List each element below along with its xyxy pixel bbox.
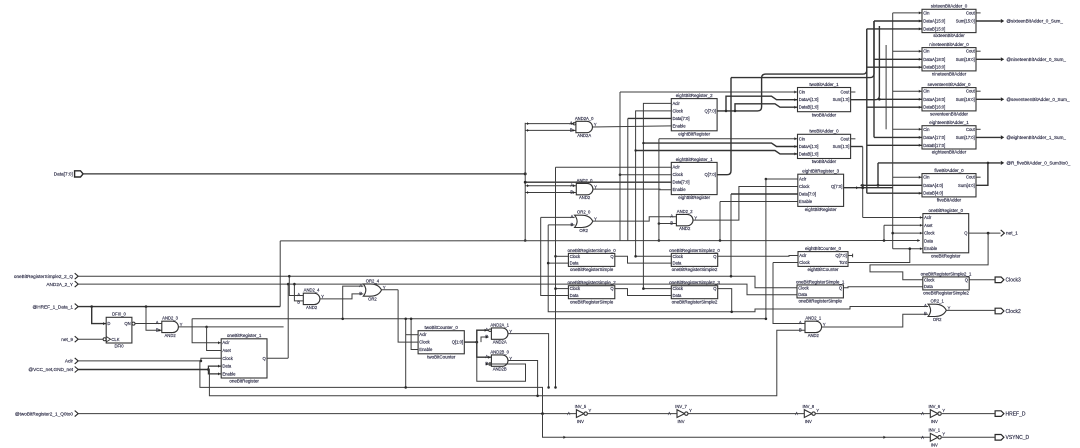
wire AND2A_0 Y to Enable <box>593 126 672 127</box>
oneBitRegisterSimple_0 <box>567 248 616 272</box>
wire eightBitRegister_2 Data feed <box>628 117 672 119</box>
wire sum fiveBitAdder_0 output <box>976 163 1001 185</box>
svg-text:eightBitRegister: eightBitRegister <box>805 207 837 212</box>
wire Aclr input line <box>78 358 221 361</box>
svg-text:AND2A: AND2A <box>493 340 507 345</box>
twoBitAdder_0 Cout stub <box>851 138 856 140</box>
wire vertical 773 to AND2_1 A <box>773 263 805 324</box>
wire INV_7 to INV_8 <box>688 413 804 415</box>
wire Q out to AND gates <box>464 341 477 343</box>
wire DataB feed <box>867 28 922 30</box>
output HREF_D <box>995 411 1026 418</box>
input port @twoBitRegister2_1_Q0to0 <box>15 411 78 417</box>
svg-text:net_9: net_9 <box>61 337 73 342</box>
svg-text:INV_8: INV_8 <box>802 404 814 409</box>
wire eighteenBitAdder_1 DataA feed <box>885 45 887 129</box>
svg-text:DataA[4:0]: DataA[4:0] <box>923 183 943 188</box>
svg-text:Y: Y <box>816 408 819 413</box>
wire trunk V1 <box>524 123 526 241</box>
svg-text:AND2: AND2 <box>808 333 820 338</box>
sixteenBitAdder_0 <box>922 4 976 39</box>
svg-text:Y: Y <box>823 322 826 327</box>
wire S0 clock feed <box>556 255 569 257</box>
svg-text:OR2: OR2 <box>933 317 942 322</box>
wire Data[7:0] bus <box>83 173 525 175</box>
svg-text:Y: Y <box>588 408 591 413</box>
wire AND2A_2_Y line <box>78 284 797 295</box>
wire AND2_4 Y to OR2_4 B <box>320 294 363 299</box>
svg-text:nineteenBitAdder_0: nineteenBitAdder_0 <box>929 42 969 47</box>
wire AND2_3 Y right <box>207 326 284 328</box>
svg-text:@eighteenBitAdder_1_Sum_: @eighteenBitAdder_1_Sum_ <box>1006 135 1066 140</box>
svg-text:AND2_1: AND2_1 <box>805 316 821 321</box>
input port @HREF_1_Data_1 <box>33 304 79 310</box>
svg-text:DataB[15:0]: DataB[15:0] <box>923 26 945 31</box>
eightBitRegister_3 <box>798 169 844 212</box>
svg-text:Data[7:0]: Data[7:0] <box>54 172 73 177</box>
svg-text:Cin: Cin <box>923 175 930 180</box>
svg-text:AND2: AND2 <box>165 333 177 338</box>
svg-text:INV: INV <box>931 419 938 424</box>
svg-text:Sum[17:0]: Sum[17:0] <box>956 135 975 140</box>
wire twoBitAdder_1 DataA feed <box>726 96 798 111</box>
svg-text:Aclr: Aclr <box>924 215 932 220</box>
wire S2 Q to S23 Data <box>615 289 672 296</box>
wire eightBitRegister_3 Enable feed <box>720 201 798 203</box>
wire eightBitCounter Clock feed <box>773 262 798 264</box>
wire to AND2B_0 A <box>477 342 492 357</box>
wire oneBitRegister_0 Q to net_1 <box>969 232 1001 234</box>
wire DataB feed <box>867 192 922 194</box>
svg-text:twoBitAdder_0: twoBitAdder_0 <box>809 129 839 134</box>
eightBitCounter_0 <box>798 246 848 272</box>
svg-text:Cin: Cin <box>923 10 930 15</box>
wire sum sixteenBitAdder_0 output <box>976 20 1001 22</box>
svg-text:fiveBitAdder: fiveBitAdder <box>937 198 962 203</box>
svg-text:@HREF_1_Data_1: @HREF_1_Data_1 <box>33 304 74 309</box>
wire fiveBitAdder_0 DataA feed <box>863 184 922 186</box>
svg-text:VSYNC_D: VSYNC_D <box>1006 435 1030 441</box>
svg-text:Q[7:0]: Q[7:0] <box>835 253 846 258</box>
wire QN to AND2_3 A <box>135 323 162 325</box>
svg-text:INV_1: INV_1 <box>928 428 940 433</box>
svg-text:Sum[1:0]: Sum[1:0] <box>833 97 850 102</box>
svg-text:eightBitRegister_1: eightBitRegister_1 <box>676 157 713 162</box>
wire AND2_4 B feed <box>294 284 303 301</box>
wire eightBitRegister_2 Clock feed <box>636 111 672 256</box>
svg-text:AND2B: AND2B <box>493 367 507 372</box>
wire to AND2B_0 B loop <box>477 342 526 381</box>
oneBitRegister_1 <box>221 333 267 383</box>
svg-text:Enable: Enable <box>799 199 813 204</box>
svg-text:A: A <box>570 214 573 219</box>
svg-text:eightBitRegister: eightBitRegister <box>678 195 710 200</box>
INV_1 gate <box>921 428 945 448</box>
svg-text:Cout: Cout <box>841 136 851 141</box>
svg-text:Y: Y <box>509 329 512 334</box>
wire fiveBitAdder_0 out trunk <box>878 162 988 164</box>
oneBitRegisterSimple_2 <box>567 280 616 304</box>
svg-text:AND2A_2_Y: AND2A_2_Y <box>46 282 73 287</box>
svg-text:oneBitRegister: oneBitRegister <box>931 253 961 258</box>
wire INV_6 to HREF_D <box>942 413 995 415</box>
svg-text:A: A <box>670 213 673 218</box>
wire sum seventeenBitAdder_0 output <box>976 98 1001 100</box>
wire twoBitAdder_1 Sum riser <box>851 26 880 100</box>
svg-text:D: D <box>107 321 110 326</box>
svg-text:sixteenBitAdder_0: sixteenBitAdder_0 <box>931 4 968 9</box>
svg-text:Clock: Clock <box>570 286 581 291</box>
svg-text:oneBitRegisterSimple_1: oneBitRegisterSimple_1 <box>796 279 845 284</box>
svg-text:oneBitRegister: oneBitRegister <box>229 379 259 384</box>
fiveBitAdder_0 <box>922 168 976 203</box>
wire twoBitCounter Clock feed <box>398 290 418 342</box>
wire eightBitRegister_3 Q out <box>844 187 893 189</box>
input port oneBitRegisterSimple2_2_Q <box>14 273 78 279</box>
svg-text:Aset: Aset <box>222 348 231 353</box>
svg-text:DataB[18:0]: DataB[18:0] <box>923 65 945 70</box>
wire Cin feed <box>893 176 922 178</box>
wire twoBitCounter Enable feed <box>411 319 418 350</box>
svg-text:INV: INV <box>678 419 685 424</box>
svg-text:Aclr: Aclr <box>673 101 681 106</box>
svg-text:@R_fiveBitAdder_0_Sum3to0_: @R_fiveBitAdder_0_Sum3to0_ <box>1006 161 1070 166</box>
svg-text:AND2_3: AND2_3 <box>162 316 178 321</box>
eightBitRegister_2 <box>671 93 717 136</box>
svg-text:Clock: Clock <box>673 286 684 291</box>
svg-text:twoBitAdder_1: twoBitAdder_1 <box>809 82 839 87</box>
svg-text:Clock: Clock <box>673 254 684 259</box>
eightBitCounter_0 Q stub <box>848 255 853 257</box>
oneBitRegisterSimple2_0 <box>669 248 720 272</box>
svg-text:OR2: OR2 <box>368 297 377 302</box>
svg-text:Q[1:0]: Q[1:0] <box>452 340 463 345</box>
wire trunk Cin vertical <box>892 13 894 249</box>
svg-text:eightBitCounter: eightBitCounter <box>807 267 839 272</box>
svg-text:AND2: AND2 <box>306 305 318 310</box>
svg-text:AND2A: AND2A <box>577 133 591 138</box>
svg-text:AND2_4: AND2_4 <box>304 288 320 293</box>
wire oneBitRegister_0 Aset feed <box>884 224 923 226</box>
svg-text:AND2B_0: AND2B_0 <box>490 349 509 354</box>
wire V3 vertical <box>548 225 928 312</box>
wire eightBitRegister_1 Clock feed <box>620 174 671 176</box>
wire oneBitRegisterSimple2_2_Q line <box>78 276 797 288</box>
svg-text:Y: Y <box>948 306 951 311</box>
wire twoBitAdder_0 DataA feed <box>643 143 797 146</box>
svg-text:Enable: Enable <box>924 246 938 251</box>
wire oneBitRegister_1 Aclr feed <box>192 319 221 343</box>
AND2_2 gate <box>670 209 697 231</box>
wire INV_1 to VSYNC_D <box>942 436 995 438</box>
svg-text:Clock: Clock <box>570 254 581 259</box>
wire bundle second <box>731 21 874 78</box>
svg-text:Cout: Cout <box>966 49 976 54</box>
svg-text:Data: Data <box>673 293 683 298</box>
svg-text:Clock: Clock <box>924 231 935 236</box>
output @R_fiveBitAdder_0_Sum3to0_ <box>1001 161 1071 166</box>
svg-text:Aclr: Aclr <box>799 253 807 258</box>
svg-text:A: A <box>799 320 802 325</box>
svg-text:Cin: Cin <box>799 90 806 95</box>
svg-text:HREF_D: HREF_D <box>1006 411 1026 417</box>
AND2_3 gate <box>156 316 183 338</box>
svg-text:@VCC_net,GND_net: @VCC_net,GND_net <box>28 367 73 372</box>
wire AND2B_0 Y out <box>508 361 538 396</box>
svg-text:CLK: CLK <box>111 337 119 342</box>
svg-text:Cin: Cin <box>923 49 930 54</box>
OR2_1 gate <box>924 299 951 322</box>
svg-text:Enable: Enable <box>673 187 687 192</box>
wire AND2_2 B feed <box>659 223 677 225</box>
wire fiveBitAdder_0 feedback leg <box>877 163 879 185</box>
output Clock2 <box>995 308 1021 315</box>
svg-text:Data: Data <box>570 293 580 298</box>
svg-text:oneBitRegisterSimple: oneBitRegisterSimple <box>570 299 614 304</box>
svg-text:AND2_2: AND2_2 <box>677 209 693 214</box>
svg-text:oneBitRegisterSimple: oneBitRegisterSimple <box>799 299 843 304</box>
wire AND2_3 Y out <box>178 326 206 328</box>
svg-text:twoBitAdder: twoBitAdder <box>812 159 837 164</box>
wire INV_8 to INV_6 <box>816 413 931 415</box>
wire DataB feed <box>867 66 922 68</box>
svg-text:DataA[15:0]: DataA[15:0] <box>923 19 945 24</box>
svg-text:Data: Data <box>570 261 580 266</box>
wire trunk y240 <box>280 240 920 242</box>
wire OR2_1 Y to Clock2 <box>946 309 995 311</box>
wire @twoBitRegister2_1_Q0to0 line <box>78 413 576 415</box>
svg-text:nineteenBitAdder: nineteenBitAdder <box>932 72 967 77</box>
svg-text:Cin: Cin <box>799 136 806 141</box>
svg-text:AND2A_0: AND2A_0 <box>575 116 594 121</box>
input port Aclr <box>65 358 78 364</box>
input port @VCC_net,GND_net <box>28 367 78 373</box>
svg-text:DataA[1:0]: DataA[1:0] <box>799 97 819 102</box>
svg-text:Tcnt: Tcnt <box>839 260 848 265</box>
output @eighteenBitAdder_1_Sum_ <box>1001 135 1067 140</box>
wire eightBitRegister_2 Q to adders bundle <box>717 29 867 111</box>
wire seventeen DataA feed <box>879 98 922 100</box>
svg-text:Clock: Clock <box>419 340 430 345</box>
svg-text:A: A <box>485 354 488 359</box>
oneBitRegister_0 <box>923 208 969 258</box>
eighteenBitAdder_1 Cout stub <box>976 128 981 130</box>
svg-text:DataA[17:0]: DataA[17:0] <box>923 135 945 140</box>
eightBitRegister_1 <box>671 157 717 200</box>
svg-text:Cin: Cin <box>923 89 930 94</box>
svg-text:Y: Y <box>689 408 692 413</box>
svg-text:eighteenBitAdder_1: eighteenBitAdder_1 <box>929 120 969 125</box>
svg-text:eighteenBitAdder: eighteenBitAdder <box>932 150 967 155</box>
wire AND2A_1 Y out <box>508 334 549 388</box>
svg-text:eightBitRegister_2: eightBitRegister_2 <box>676 93 713 98</box>
svg-text:oneBitRegisterSimple2: oneBitRegisterSimple2 <box>923 291 969 296</box>
svg-text:Y: Y <box>594 184 597 189</box>
wire twoBitAdder_0 Cin feed <box>659 138 798 140</box>
input port Data[7:0] <box>54 171 83 177</box>
svg-text:Clock: Clock <box>924 277 935 282</box>
svg-text:oneBitRegisterSimple2_1: oneBitRegisterSimple2_1 <box>921 271 972 276</box>
wire OR2_0 A feed <box>541 216 575 218</box>
OR2_4 gate <box>359 278 386 301</box>
wire DataA feed <box>874 136 922 138</box>
wire Cin feed <box>893 12 922 14</box>
wire AND2A_0 B feed <box>525 129 576 131</box>
twoBitCounter_0 <box>418 325 464 359</box>
svg-text:Aclr: Aclr <box>673 165 681 170</box>
wire S21 Q to Clock3 <box>969 279 995 281</box>
svg-text:Data[7:0]: Data[7:0] <box>799 192 816 197</box>
svg-text:oneBitRegister_0: oneBitRegister_0 <box>929 208 964 213</box>
wire to AND2A_1 <box>477 330 489 342</box>
wire VSYNC branch <box>543 414 931 438</box>
svg-text:Cout: Cout <box>966 127 976 132</box>
wire AND2_1 Y to OR2_1 B <box>822 314 929 327</box>
wire eightBitRegister_3 Data feed <box>731 193 798 195</box>
svg-text:A: A <box>924 303 927 308</box>
wire VCC net down <box>209 330 805 396</box>
AND2A_0 gate <box>570 116 597 138</box>
input port AND2A_2_Y <box>46 281 78 287</box>
svg-text:Y: Y <box>942 408 945 413</box>
svg-text:OR2: OR2 <box>579 228 588 233</box>
twoBitAdder_1 Cout stub <box>851 91 856 93</box>
wire AND2_2 Y out <box>693 187 798 221</box>
svg-text:Sum[4:0]: Sum[4:0] <box>958 183 975 188</box>
svg-text:INV: INV <box>931 443 938 448</box>
wire eightBitRegister_1 Data feed <box>525 181 671 183</box>
eighteenBitAdder_1 <box>922 120 976 155</box>
svg-text:eightBitCounter_0: eightBitCounter_0 <box>805 246 842 251</box>
svg-text:A: A <box>297 292 300 297</box>
svg-text:seventeenBitAdder_0: seventeenBitAdder_0 <box>927 82 971 87</box>
svg-text:Sum[15:0]: Sum[15:0] <box>956 19 975 24</box>
INV_8 gate <box>795 404 819 424</box>
svg-text:Clock: Clock <box>798 285 809 290</box>
wire oneBitRegister_1 Q up <box>287 284 289 358</box>
svg-text:Sum[18:0]: Sum[18:0] <box>956 57 975 62</box>
svg-text:oneBitRegisterSimple2: oneBitRegisterSimple2 <box>672 267 718 272</box>
svg-text:eightBitRegister: eightBitRegister <box>678 131 710 136</box>
svg-text:DataA[16:0]: DataA[16:0] <box>923 97 945 102</box>
svg-text:@sixteenBitAdder_0_Sum_: @sixteenBitAdder_0_Sum_ <box>1006 19 1063 24</box>
wire seventeen DataB feed <box>867 106 922 108</box>
svg-text:INV_5: INV_5 <box>575 404 587 409</box>
svg-text:Aclr: Aclr <box>799 177 807 182</box>
svg-text:DataB[1:0]: DataB[1:0] <box>799 105 819 110</box>
AND2_4 gate <box>297 288 324 310</box>
wire Tcnt out <box>848 249 910 263</box>
svg-text:DataB[17:0]: DataB[17:0] <box>923 143 945 148</box>
wire sum eighteenBitAdder_1 output <box>976 136 1001 138</box>
svg-text:AND2: AND2 <box>579 195 591 200</box>
svg-text:Cout: Cout <box>841 90 851 95</box>
fiveBitAdder_0 Cout stub <box>976 176 981 178</box>
wire vertical 862 down <box>862 147 864 218</box>
svg-text:@twoBitRegister2_1_Q0to0: @twoBitRegister2_1_Q0to0 <box>15 411 74 416</box>
svg-text:Aclr: Aclr <box>419 332 427 337</box>
wire OR2_4 A feed <box>343 286 364 319</box>
AND2_1 gate <box>799 316 826 338</box>
svg-text:INV_6: INV_6 <box>928 404 940 409</box>
output @nineteenBitAdder_0_Sum_ <box>1001 57 1067 62</box>
output @sixteenBitAdder_0_Sum_ <box>1001 19 1064 24</box>
wire S0 Q to S20 Data <box>615 256 672 263</box>
svg-text:Q[7:0]: Q[7:0] <box>704 172 715 177</box>
svg-text:DataB[1:0]: DataB[1:0] <box>799 152 819 157</box>
svg-text:Clock: Clock <box>799 184 810 189</box>
svg-text:Aclr: Aclr <box>65 359 74 364</box>
output VSYNC_D <box>995 435 1029 442</box>
wire oneBitRegister_0 Clock feed <box>893 232 923 234</box>
wire S1 Q out <box>843 287 922 288</box>
svg-text:Data: Data <box>798 292 808 297</box>
svg-text:Sum[16:0]: Sum[16:0] <box>956 97 975 102</box>
svg-text:oneBitRegisterSimple_0: oneBitRegisterSimple_0 <box>567 248 616 253</box>
wire eightBitRegister_3 Aclr feed <box>766 178 798 180</box>
svg-text:Enable: Enable <box>673 123 687 128</box>
wire vertical 658 <box>658 139 660 241</box>
wire twoBitAdder_0 DataB feed <box>636 151 798 154</box>
oneBitRegisterSimple2_1 <box>921 271 972 295</box>
svg-text:Aclr: Aclr <box>222 340 230 345</box>
wire Cin feed <box>893 128 922 130</box>
svg-text:Y: Y <box>694 215 697 220</box>
wire Cin feed <box>893 50 922 52</box>
svg-text:Data: Data <box>673 261 683 266</box>
svg-text:B: B <box>297 299 300 304</box>
output Clock3 <box>995 277 1021 284</box>
svg-text:Data[7:0]: Data[7:0] <box>673 116 690 121</box>
wire S23 Q out <box>718 289 732 312</box>
svg-text:A: A <box>485 327 488 332</box>
svg-text:Cout: Cout <box>966 89 976 94</box>
svg-text:eightBitRegister_3: eightBitRegister_3 <box>802 169 839 174</box>
svg-text:A: A <box>156 320 159 325</box>
wire OR2_0 Y to AND2_2 A <box>593 217 677 221</box>
wire AND2_0 Y to Enable <box>593 188 671 191</box>
wire DataA feed <box>874 20 922 22</box>
svg-text:oneBitRegister_1: oneBitRegister_1 <box>227 333 262 338</box>
wire Aclr net down <box>200 361 543 414</box>
svg-text:DataB[16:0]: DataB[16:0] <box>923 105 945 110</box>
svg-text:Clock: Clock <box>673 108 684 113</box>
svg-text:Aset: Aset <box>924 223 933 228</box>
wire eightBitRegister_2 Aclr feed <box>643 103 671 288</box>
wire HREF vertical <box>279 241 281 307</box>
oneBitRegisterSimple_1 <box>796 279 845 303</box>
svg-text:AND2A_1: AND2A_1 <box>490 322 509 327</box>
svg-text:oneBitRegisterSimple: oneBitRegisterSimple <box>570 267 614 272</box>
twoBitAdder_1 <box>798 82 851 117</box>
wire vertical 620 <box>619 92 621 241</box>
svg-text:Enable: Enable <box>222 371 236 376</box>
svg-text:seventeenBitAdder: seventeenBitAdder <box>930 112 969 117</box>
svg-text:oneBitRegisterSimple2_0: oneBitRegisterSimple2_0 <box>669 248 720 253</box>
wire @HREF_1_Data_1 line <box>78 306 280 308</box>
svg-text:DataB[4:0]: DataB[4:0] <box>923 191 943 196</box>
svg-text:Cout: Cout <box>966 10 976 15</box>
oneBitRegisterSimple2_3 <box>669 280 720 304</box>
svg-text:Clock: Clock <box>222 356 233 361</box>
seventeenBitAdder_0 <box>922 82 976 117</box>
svg-text:twoBitCounter_0: twoBitCounter_0 <box>425 325 459 330</box>
wire oneBitRegister_1 Q out <box>267 357 288 359</box>
wire vertical 884 <box>883 225 885 240</box>
wire VCC to Data <box>208 366 221 369</box>
wire S0 data feed <box>548 262 568 264</box>
wire D feed <box>92 307 107 324</box>
